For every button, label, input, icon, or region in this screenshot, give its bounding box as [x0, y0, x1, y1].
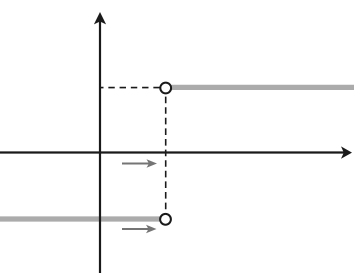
gray limit arrow above x-axis [122, 159, 157, 167]
x-axis arrowhead [341, 146, 352, 158]
x-axis [0, 151, 344, 153]
y-axis arrowhead [94, 12, 106, 24]
horizontal dashed guide line [100, 87, 160, 89]
lower gray branch of step function [0, 216, 161, 221]
y-axis [99, 20, 101, 273]
open circle at lower branch endpoint [160, 214, 171, 225]
open circle at upper branch endpoint [160, 83, 171, 94]
gray limit arrow below lower branch [122, 225, 157, 233]
upper gray branch of step function [172, 85, 354, 90]
vertical dashed guide line [165, 97, 167, 214]
